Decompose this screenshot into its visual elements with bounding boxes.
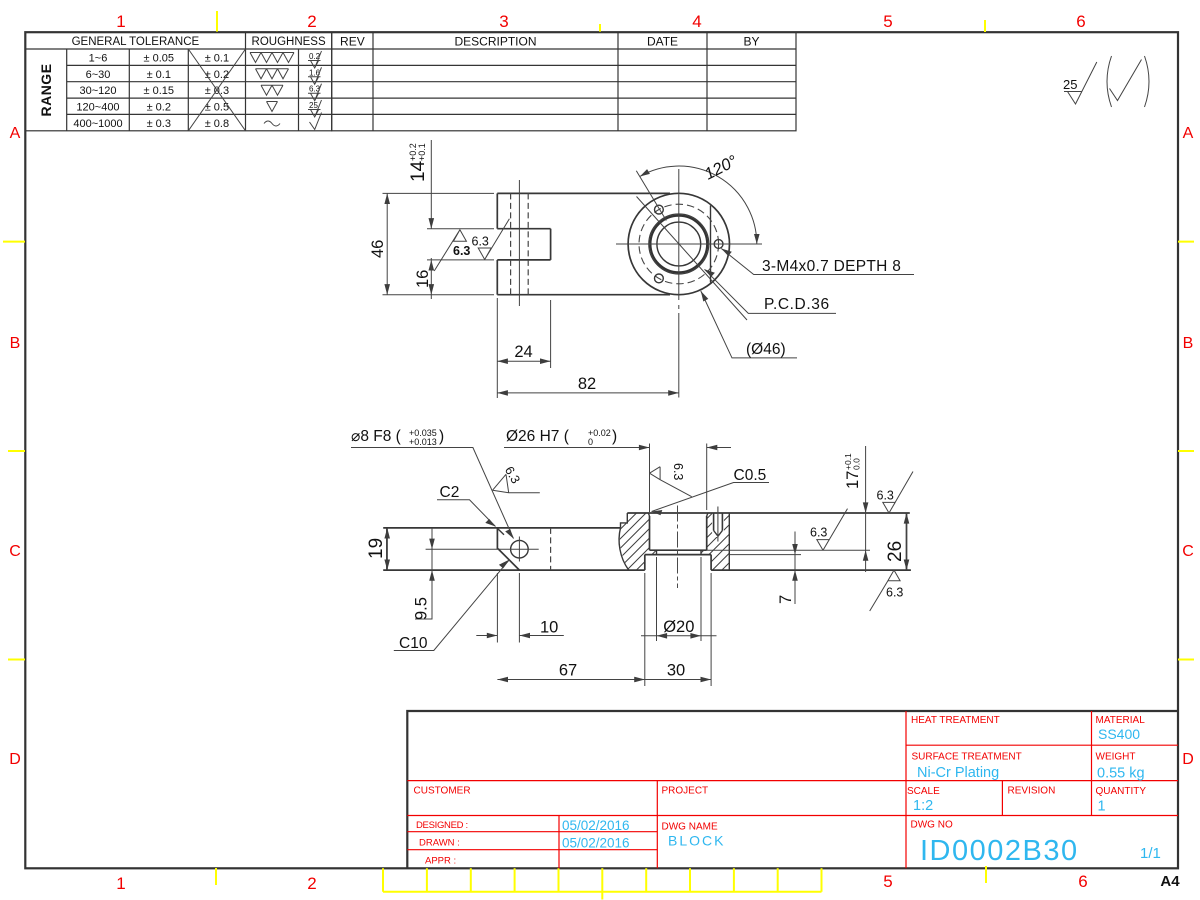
- rev table grid: [332, 32, 796, 131]
- svg-text:ID0002B30: ID0002B30: [920, 835, 1079, 867]
- svg-text:1: 1: [116, 12, 125, 31]
- dim dia20 ext left: [656, 557, 658, 641]
- section break arc: [619, 528, 629, 570]
- bar left end: [386, 528, 388, 570]
- svg-text:+0.1: +0.1: [417, 143, 427, 161]
- rough value 0.2: [308, 51, 322, 68]
- svg-text:67: 67: [559, 662, 577, 680]
- hole dia8 hidden line left: [510, 193, 512, 294]
- bar left edge upper: [496, 193, 498, 228]
- svg-text:Ø20: Ø20: [663, 618, 694, 636]
- svg-text:30: 30: [667, 662, 685, 680]
- hole dia8 h-centerline: [426, 548, 539, 550]
- dim 24 extension right: [550, 300, 552, 368]
- chamfer C2 edge: [497, 528, 504, 534]
- bar left edge lower: [496, 260, 498, 295]
- svg-text:WEIGHT: WEIGHT: [1096, 752, 1136, 763]
- yellow ticks left: [3, 242, 25, 660]
- svg-text:1: 1: [1098, 799, 1106, 815]
- svg-text:± 0.3: ± 0.3: [147, 118, 171, 130]
- svg-text:REVISION: REVISION: [1008, 786, 1056, 797]
- general roughness symbol in parens: [1107, 56, 1149, 107]
- svg-text:HEAT TREATMENT: HEAT TREATMENT: [911, 715, 1000, 726]
- leader C2: [437, 500, 496, 527]
- svg-text:17: 17: [844, 471, 862, 489]
- roughness 6.3 on dia26 ext: [650, 463, 692, 497]
- svg-text:MATERIAL: MATERIAL: [1096, 715, 1146, 726]
- svg-text:RANGE: RANGE: [38, 63, 54, 116]
- svg-text:DESCRIPTION: DESCRIPTION: [454, 35, 536, 49]
- svg-text:± 0.1: ± 0.1: [147, 69, 171, 81]
- svg-text:PROJECT: PROJECT: [662, 786, 709, 797]
- M4 hole upper left: [655, 205, 664, 214]
- bottom edge right: [711, 569, 911, 571]
- svg-text:REV: REV: [340, 35, 365, 49]
- svg-text:5: 5: [883, 872, 892, 891]
- hatch left region: [620, 513, 657, 570]
- svg-text:D: D: [1182, 751, 1194, 768]
- roughness triangle row4: [267, 102, 278, 112]
- M4 tapped hole section: [714, 507, 723, 542]
- bar top edge: [497, 192, 670, 194]
- bore bottom: [650, 549, 707, 551]
- M4 radial centerline: [636, 171, 666, 221]
- svg-text:(Ø46): (Ø46): [746, 341, 786, 358]
- roughness triangles row2: [256, 69, 289, 79]
- svg-text:A: A: [10, 125, 21, 142]
- svg-text:6.3: 6.3: [810, 526, 827, 540]
- dim 30 line: [645, 679, 711, 681]
- svg-text:): ): [612, 428, 617, 445]
- bore wall right: [706, 516, 708, 550]
- dim 10 line: [476, 635, 564, 637]
- svg-text:25: 25: [309, 101, 318, 110]
- dim 16 line: [430, 258, 432, 299]
- svg-text:82: 82: [578, 375, 596, 393]
- slot top edge: [497, 228, 550, 230]
- svg-text:24: 24: [514, 343, 532, 361]
- svg-text:7: 7: [777, 595, 795, 604]
- red row line designed/drawn: [407, 831, 657, 833]
- vertical centerline boss: [678, 169, 680, 398]
- roughness 6.3 on dia8 leader: [493, 464, 540, 493]
- bore circle dia26: [650, 216, 707, 273]
- horizontal centerline boss: [616, 243, 762, 245]
- dim 14 extension slot top: [427, 228, 494, 230]
- dim 19 line: [386, 528, 388, 570]
- svg-text:± 0.05: ± 0.05: [144, 53, 175, 65]
- svg-text:⌀8 F8 (: ⌀8 F8 (: [351, 428, 402, 445]
- leader 3-M4: [721, 249, 914, 275]
- label dia26 H7: [506, 428, 617, 447]
- bar bottom edge: [497, 294, 670, 296]
- leader C0.5: [652, 483, 770, 512]
- M4 hole lower left: [655, 274, 664, 283]
- red row line heat/surface: [906, 744, 1178, 746]
- svg-text:C0.5: C0.5: [734, 467, 767, 484]
- roughness tilde row5: [264, 121, 280, 126]
- svg-text:A: A: [1183, 125, 1194, 142]
- svg-text:QUANTITY: QUANTITY: [1096, 786, 1147, 797]
- dim 9.5 line: [415, 528, 433, 619]
- svg-text:46: 46: [369, 240, 387, 258]
- bore chamfer C05 right: [707, 513, 708, 516]
- svg-text:DRAWN :: DRAWN :: [419, 838, 460, 849]
- svg-text:D: D: [9, 751, 21, 768]
- svg-text:P.C.D.36: P.C.D.36: [764, 296, 830, 313]
- svg-text:± 0.5: ± 0.5: [205, 102, 229, 114]
- svg-text:± 0.8: ± 0.8: [205, 118, 229, 130]
- svg-text:): ): [439, 428, 444, 445]
- svg-text:DESIGNED :: DESIGNED :: [416, 820, 468, 831]
- slot bottom hidden line: [550, 528, 552, 570]
- recess wall left: [644, 555, 646, 571]
- svg-text:05/02/2016: 05/02/2016: [562, 836, 630, 851]
- svg-text:6.3: 6.3: [877, 489, 894, 503]
- bore centerline: [677, 506, 679, 589]
- svg-text:6: 6: [1078, 872, 1087, 891]
- bar bottom edge: [383, 569, 645, 571]
- recess wall right: [710, 555, 712, 571]
- red col line main: [905, 711, 907, 868]
- svg-text:05/02/2016: 05/02/2016: [562, 818, 630, 833]
- svg-text:B: B: [1183, 335, 1194, 352]
- svg-text:3-M4x0.7 DEPTH 8: 3-M4x0.7 DEPTH 8: [762, 258, 901, 275]
- svg-text:400~1000: 400~1000: [73, 118, 122, 130]
- svg-text:± 0.2: ± 0.2: [147, 102, 171, 114]
- title block outline black: [407, 711, 1178, 868]
- tolerance table grid: [25, 32, 331, 131]
- dim 17 ext: [707, 549, 870, 551]
- svg-text:16: 16: [414, 270, 432, 288]
- diagonal centerline through boss: [637, 197, 748, 321]
- dim 67 ext right: [644, 573, 646, 686]
- svg-text:6.3: 6.3: [886, 586, 903, 600]
- 120 deg arc: [640, 166, 757, 244]
- rough value 6.3: [308, 84, 322, 101]
- slot roughness 6.3 lower: [472, 219, 510, 260]
- roughness 6.3 mid right: [810, 509, 848, 551]
- svg-text:B: B: [10, 335, 21, 352]
- svg-text:± 0.2: ± 0.2: [205, 69, 229, 81]
- label dia8 F8: [351, 428, 444, 447]
- dim 24 extension left: [496, 298, 498, 398]
- dim dia26 line right: [707, 447, 731, 449]
- dim 30 ext right: [710, 573, 712, 686]
- dim dia26 ext right: [706, 444, 708, 511]
- red row line scale/dwgno: [407, 815, 1178, 817]
- bar right end edge: [710, 206, 712, 283]
- svg-text:SURFACE TREATMENT: SURFACE TREATMENT: [912, 752, 1022, 763]
- roughness 6.3 top right: [877, 472, 914, 514]
- tolerance table outer: [25, 32, 331, 131]
- leader C10: [394, 560, 510, 651]
- dim 17 text with tolerance: [843, 453, 862, 489]
- svg-text:5: 5: [883, 12, 892, 31]
- bore wall left: [649, 516, 651, 550]
- bore chamfer C05 left: [648, 513, 649, 516]
- svg-text:0.55 kg: 0.55 kg: [1097, 766, 1145, 782]
- leader dia8: [351, 448, 514, 539]
- svg-text:C: C: [9, 543, 21, 560]
- dim 14 extension slot bottom: [427, 259, 494, 261]
- svg-text:C10: C10: [399, 635, 428, 652]
- svg-text:APPR :: APPR :: [425, 856, 456, 867]
- svg-text:1:2: 1:2: [913, 798, 933, 814]
- boss top edge: [627, 512, 910, 514]
- svg-text:SS400: SS400: [1098, 726, 1140, 742]
- svg-text:9.5: 9.5: [413, 597, 431, 620]
- svg-text:1/1: 1/1: [1140, 845, 1161, 862]
- svg-text:± 0.3: ± 0.3: [205, 85, 229, 97]
- bar top edge left: [383, 527, 620, 529]
- dim 14 line: [430, 140, 432, 229]
- dim dia26 line left: [504, 447, 650, 449]
- right end edge: [906, 513, 908, 570]
- dim 14 text with tolerance: [408, 143, 429, 182]
- svg-text:SCALE: SCALE: [907, 786, 940, 797]
- slot end face: [550, 229, 552, 260]
- hole dia8 hidden line right: [527, 193, 529, 294]
- clevis face edge: [496, 528, 498, 550]
- red col line material: [1091, 711, 1093, 816]
- roughness 6.3 bottom right (inverted): [870, 570, 904, 611]
- slot roughness 6.3 upper (inverted): [434, 230, 470, 271]
- yellow centering ruler bottom: [383, 868, 822, 899]
- svg-text:19: 19: [366, 538, 387, 559]
- leader dia46: [701, 291, 797, 358]
- chamfer circle C0.5: [649, 214, 709, 274]
- svg-text:± 0.15: ± 0.15: [144, 85, 175, 97]
- dim 7 ext: [729, 554, 801, 556]
- svg-text:CUSTOMER: CUSTOMER: [414, 786, 471, 797]
- svg-text:A4: A4: [1160, 873, 1180, 890]
- dim 46 line: [386, 193, 388, 294]
- general roughness symbol 25: [1063, 62, 1097, 104]
- yellow ticks bottom: [216, 866, 986, 885]
- svg-text:0: 0: [588, 437, 593, 447]
- dim 17 line: [865, 446, 867, 572]
- hatch right region: [701, 513, 729, 570]
- M4 hole right: [714, 240, 723, 249]
- roughness triangles row3: [261, 85, 283, 95]
- M4 hole white patch: [712, 513, 724, 537]
- dim 67 line: [497, 679, 644, 681]
- svg-text:1: 1: [116, 874, 125, 893]
- svg-text:Ni-Cr Plating: Ni-Cr Plating: [917, 765, 999, 781]
- rough value 25: [308, 100, 322, 117]
- svg-text:C: C: [1182, 543, 1194, 560]
- recess floor: [645, 554, 711, 556]
- red col line revision: [1001, 781, 1003, 816]
- dim 26 line: [906, 513, 908, 570]
- svg-text:0.0: 0.0: [852, 458, 862, 470]
- dim 82 line: [497, 392, 679, 394]
- dim dia20 ext right: [700, 557, 702, 641]
- dim 46 extension bottom: [383, 294, 495, 296]
- boss circle dia46: [628, 193, 729, 294]
- svg-text:DWG NO: DWG NO: [911, 820, 953, 831]
- svg-text:Ø26 H7 (: Ø26 H7 (: [506, 428, 570, 445]
- slot bottom edge: [497, 259, 550, 261]
- svg-text:6~30: 6~30: [86, 69, 111, 81]
- svg-text:6: 6: [1076, 12, 1085, 31]
- red row line surface/scale: [407, 780, 1178, 782]
- dim 7 line: [794, 532, 796, 605]
- hole dia20 wall left: [656, 550, 658, 554]
- svg-text:ROUGHNESS: ROUGHNESS: [252, 36, 326, 48]
- svg-text:2: 2: [307, 12, 316, 31]
- svg-text:6.3: 6.3: [472, 235, 489, 249]
- hole dia8 v-centerline: [518, 537, 520, 562]
- svg-text:26: 26: [885, 541, 906, 562]
- rev table outer: [332, 32, 796, 131]
- hole circle dia20: [657, 222, 701, 266]
- svg-text:2: 2: [307, 874, 316, 893]
- red col line date: [558, 816, 560, 869]
- rough value 1.6: [308, 67, 322, 84]
- svg-text:6.3: 6.3: [671, 463, 685, 480]
- svg-text:BY: BY: [743, 35, 759, 49]
- roughness triangles row1: [250, 53, 294, 63]
- svg-text:6.3: 6.3: [453, 244, 470, 258]
- hole dia8 axis line: [518, 180, 520, 306]
- svg-text:1~6: 1~6: [89, 53, 108, 65]
- rough value check row5: [310, 113, 322, 130]
- X cross over col2: [188, 49, 245, 131]
- hole dia8 circle: [511, 540, 529, 558]
- svg-text:± 0.1: ± 0.1: [205, 53, 229, 65]
- boss section boundary right: [728, 513, 730, 570]
- yellow ticks right: [1178, 242, 1194, 660]
- dim 10 ext right: [518, 573, 520, 643]
- dim 24 line: [497, 360, 550, 362]
- svg-text:4: 4: [692, 12, 701, 31]
- svg-text:3: 3: [499, 12, 508, 31]
- dim dia26 ext left: [649, 444, 651, 513]
- leader PCD36: [705, 269, 837, 313]
- hole dia20 wall right: [700, 550, 702, 554]
- svg-text:BLOCK: BLOCK: [668, 833, 725, 849]
- svg-text:+0.013: +0.013: [409, 437, 437, 447]
- dim 10 ext left: [496, 573, 498, 643]
- chamfer C10 edge: [498, 549, 520, 571]
- svg-text:C2: C2: [440, 484, 460, 501]
- svg-text:10: 10: [540, 619, 558, 637]
- svg-text:GENERAL TOLERANCE: GENERAL TOLERANCE: [72, 36, 200, 48]
- yellow ticks top: [217, 11, 985, 32]
- svg-text:DWG NAME: DWG NAME: [662, 822, 718, 833]
- dim dia20 line: [641, 635, 717, 637]
- dim 46 extension top: [383, 192, 495, 194]
- svg-text:DATE: DATE: [647, 35, 678, 49]
- red row line drawn/appr: [407, 849, 657, 851]
- svg-text:120~400: 120~400: [76, 102, 119, 114]
- red col line customer/project: [656, 781, 658, 869]
- svg-text:25: 25: [1063, 77, 1077, 92]
- section break step: [621, 513, 628, 528]
- svg-text:30~120: 30~120: [79, 85, 116, 97]
- PCD 36 dashed circle: [639, 204, 719, 284]
- svg-text:14: 14: [408, 160, 429, 182]
